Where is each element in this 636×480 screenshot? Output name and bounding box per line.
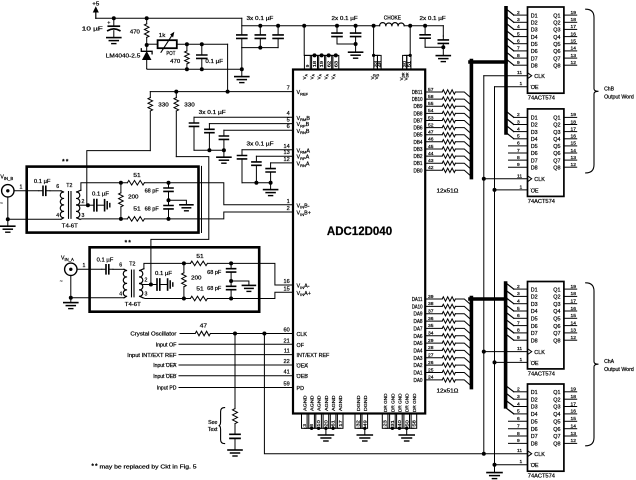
svg-text:17: 17 xyxy=(571,401,577,407)
pin Q8 of U3 xyxy=(553,162,576,171)
svg-text:8: 8 xyxy=(517,431,520,437)
svg-text:51: 51 xyxy=(196,254,203,260)
svg-text:470: 470 xyxy=(130,29,140,35)
input connector VIN_A (BNC) xyxy=(60,255,77,285)
svg-text:Q4: Q4 xyxy=(553,412,560,418)
svg-text:74ACT574: 74ACT574 xyxy=(528,199,555,205)
svg-text:51: 51 xyxy=(407,60,412,67)
wire LM4040 bottom rail xyxy=(147,68,242,70)
svg-text:Q1: Q1 xyxy=(553,287,560,293)
pin label AGND (3) xyxy=(302,395,307,411)
capacitor 10uF (polarized) xyxy=(82,18,120,37)
node OE/U5 xyxy=(493,463,528,467)
svg-text:3: 3 xyxy=(517,119,520,125)
ground VD caps xyxy=(349,52,363,58)
wire+resistor 51 ohm DA7 (pin 35) xyxy=(425,323,471,335)
svg-text:DA1: DA1 xyxy=(414,371,423,377)
ground BNC B xyxy=(1,226,15,232)
pin D7 of U5 xyxy=(509,431,538,440)
capacitor 68pF B lower xyxy=(145,200,173,219)
brace ChA output word xyxy=(586,283,634,446)
svg-text:8: 8 xyxy=(517,328,520,334)
node A top row/68pF xyxy=(229,261,233,265)
wire+resistor 51 ohm DB3 (pin 45) xyxy=(425,144,471,156)
svg-text:Input PD: Input PD xyxy=(157,386,177,392)
svg-text:2: 2 xyxy=(517,112,520,118)
pin label DR GND (23) xyxy=(383,393,388,412)
label 3x 0.1uF (ref B) xyxy=(199,110,226,116)
ground AGND xyxy=(318,435,333,441)
node CLK/U4 xyxy=(482,350,528,354)
brace ChB output word xyxy=(586,9,634,173)
svg-text:41: 41 xyxy=(283,370,289,376)
pin VA box 62 xyxy=(326,53,332,69)
svg-text:74ACT574: 74ACT574 xyxy=(528,371,555,377)
inductor CHOKE xyxy=(380,16,405,26)
svg-text:3x 0.1 µF: 3x 0.1 µF xyxy=(199,110,226,116)
svg-text:330: 330 xyxy=(158,102,169,108)
svg-text:0.1 µF: 0.1 µF xyxy=(34,179,51,185)
node bottom rail/0.1uF xyxy=(200,67,204,71)
pin label PD xyxy=(297,386,305,392)
pin label CLK xyxy=(297,332,308,338)
svg-text:DB8: DB8 xyxy=(414,111,423,117)
node OE/U4 xyxy=(493,360,528,364)
pin CLK of U3 xyxy=(517,173,545,183)
pin D4 of U5 xyxy=(506,408,538,419)
svg-text:Q7: Q7 xyxy=(553,331,560,337)
ground BNC A xyxy=(64,303,78,309)
wire stub beside box B right edge xyxy=(201,166,203,232)
svg-text:1: 1 xyxy=(20,185,23,191)
svg-text:VINB-: VINB- xyxy=(297,203,310,209)
wire+resistor 51 ohm DB11 (pin 57) xyxy=(425,87,471,99)
pin label DA8 xyxy=(414,319,423,325)
potentiometer 1k POT xyxy=(147,32,177,57)
svg-text:D7: D7 xyxy=(531,56,538,62)
capacitor VRM A 0.1uF xyxy=(238,150,247,183)
ground power-section main xyxy=(235,69,249,82)
pin label DR GND (58) xyxy=(412,393,417,412)
label+wire Input PD row pin 59 xyxy=(157,382,293,392)
svg-text:2: 2 xyxy=(517,10,520,16)
pin D3 of U5 xyxy=(506,400,538,411)
pin Q8 of U5 xyxy=(553,438,576,447)
svg-text:Q6: Q6 xyxy=(553,49,560,55)
svg-text:2: 2 xyxy=(145,277,148,283)
svg-text:14: 14 xyxy=(571,424,577,430)
pin D3 of U4 xyxy=(506,297,538,308)
svg-text:6: 6 xyxy=(287,124,290,130)
pin Q6 of U4 xyxy=(553,320,576,329)
svg-text:Q5: Q5 xyxy=(553,420,560,426)
capacitor VRP A 0.1uF xyxy=(252,156,261,183)
resistor see-text xyxy=(233,334,238,424)
wire A primary bottom to BNC ground xyxy=(69,276,124,303)
wire VDR caps bottom rail xyxy=(425,45,445,55)
svg-text:CLK: CLK xyxy=(534,74,545,80)
svg-text:14: 14 xyxy=(571,320,577,326)
ground DR GND xyxy=(399,435,414,441)
svg-text:D3: D3 xyxy=(531,405,538,411)
ground below 10uF xyxy=(107,38,121,44)
wire VD pins feed xyxy=(372,26,379,57)
label+wire Input INT/EXT REF row pin 11 xyxy=(127,349,293,359)
svg-text:Q3: Q3 xyxy=(553,28,560,34)
svg-text:9: 9 xyxy=(305,64,310,67)
svg-text:6: 6 xyxy=(517,39,520,45)
svg-text:16: 16 xyxy=(571,134,577,140)
pin label DR GND (31) xyxy=(390,393,395,412)
pin label VA (19) xyxy=(316,73,322,79)
ground ref A caps xyxy=(264,190,278,196)
svg-text:ChA: ChA xyxy=(604,359,615,365)
wire+resistor 51 ohm DA3 (pin 27) xyxy=(425,353,471,365)
wire VDR pins feed xyxy=(405,26,412,57)
svg-text:23: 23 xyxy=(383,420,388,427)
svg-text:PD: PD xyxy=(297,386,305,392)
input connector VIN_B (BNC) xyxy=(0,174,14,207)
svg-text:18: 18 xyxy=(571,17,577,23)
pin D6 of U4 xyxy=(506,319,538,330)
svg-text:3: 3 xyxy=(517,394,520,400)
svg-text:5: 5 xyxy=(517,31,520,37)
pin OE of U3 xyxy=(520,184,539,194)
svg-text:Output Word: Output Word xyxy=(604,94,634,100)
svg-text:15: 15 xyxy=(283,287,289,293)
node B tap junction xyxy=(86,203,90,207)
wire pot wiper row xyxy=(177,43,228,45)
svg-text:3: 3 xyxy=(145,292,148,298)
svg-text:15: 15 xyxy=(571,313,577,319)
pin Q7 of U4 xyxy=(553,328,576,337)
pin label AGND (17) xyxy=(338,395,343,411)
pin D3 of U2 xyxy=(506,23,538,33)
svg-text:Q8: Q8 xyxy=(553,442,560,448)
svg-text:VA: VA xyxy=(331,73,337,79)
wire+resistor 51 ohm DA11 (pin 39) xyxy=(425,294,471,306)
pin label VRM A xyxy=(297,148,311,154)
svg-text:D1: D1 xyxy=(531,287,538,293)
pin label AGND (20) xyxy=(324,395,329,411)
svg-text:49: 49 xyxy=(362,420,367,427)
resistor 51 A bottom xyxy=(190,286,231,301)
resistor 51 B top xyxy=(121,173,169,185)
svg-text:DB1: DB1 xyxy=(414,161,423,167)
svg-text:DA6: DA6 xyxy=(414,334,423,340)
pin Q1 of U5 xyxy=(553,387,576,396)
pin Q1 of U4 xyxy=(553,284,576,293)
svg-text:15: 15 xyxy=(571,39,577,45)
svg-text:+5: +5 xyxy=(92,1,99,7)
pin Q8 of U2 xyxy=(553,60,576,69)
wire VA supply rail xyxy=(242,18,443,25)
svg-text:DA0: DA0 xyxy=(414,378,423,384)
node A 68pF midpoint xyxy=(229,279,233,283)
pin label VA (62) xyxy=(324,73,330,79)
svg-text:8: 8 xyxy=(517,53,520,59)
svg-text:DR GND: DR GND xyxy=(397,393,402,412)
pin DR GND box 40 xyxy=(397,414,403,429)
svg-text:D4: D4 xyxy=(531,35,538,41)
svg-text:DB10: DB10 xyxy=(412,97,423,103)
node rail/C2 xyxy=(258,24,262,28)
ground A 68pF midpoint xyxy=(231,281,255,291)
wire CLK rail vertical xyxy=(483,76,485,454)
pin label VREF xyxy=(297,90,309,96)
node CLK/U3 xyxy=(482,177,528,181)
pin D6 of U3 xyxy=(509,148,538,157)
label Crystal Oscillator input xyxy=(130,332,176,338)
svg-text:DGND: DGND xyxy=(363,395,368,411)
pin Q3 of U4 xyxy=(553,299,576,308)
pin Q6 of U5 xyxy=(553,424,576,433)
svg-text:4: 4 xyxy=(517,299,520,305)
pin Q3 of U5 xyxy=(553,401,576,410)
wire VRM B row pin 4 xyxy=(194,111,293,117)
pin D5 of U2 xyxy=(506,37,538,48)
svg-text:D8: D8 xyxy=(531,442,538,448)
pin label DA0 xyxy=(414,378,423,384)
svg-text:~: ~ xyxy=(0,201,3,207)
svg-text:51: 51 xyxy=(133,173,140,179)
svg-text:31: 31 xyxy=(390,420,395,427)
pin Q2 of U3 xyxy=(553,119,576,128)
pin label OEB xyxy=(297,374,309,380)
svg-text:74ACT574: 74ACT574 xyxy=(528,474,555,480)
svg-text:4: 4 xyxy=(517,401,520,407)
svg-text:AGND: AGND xyxy=(310,395,315,411)
capacitor bypass C1 0.1uF xyxy=(237,26,247,48)
svg-text:13: 13 xyxy=(283,150,289,156)
svg-text:50: 50 xyxy=(404,420,409,427)
wire A bottom row xyxy=(143,297,190,301)
svg-text:OF: OF xyxy=(297,343,305,349)
svg-text:T4-6T: T4-6T xyxy=(125,302,142,308)
capacitor 0.1uF A tap bypass xyxy=(151,271,172,290)
svg-text:13: 13 xyxy=(571,53,577,59)
svg-text:LM4040-2.5: LM4040-2.5 xyxy=(106,54,141,60)
node A top row/200 xyxy=(182,261,186,265)
wire cap to transformer A primary xyxy=(113,263,124,270)
svg-text:16: 16 xyxy=(571,306,577,312)
svg-text:**: ** xyxy=(91,463,98,470)
label 12x51 ohm (DA) xyxy=(437,388,459,394)
pin D3 of U3 xyxy=(506,125,538,136)
diode LM4040-2.5 shunt reference xyxy=(106,45,152,69)
wire VRN B row pin 6 xyxy=(224,124,293,130)
svg-text:2: 2 xyxy=(287,206,290,212)
node +5/470 junction xyxy=(145,16,149,20)
pin label DA6 xyxy=(414,334,423,340)
pin DR GND box 23 xyxy=(382,414,388,429)
svg-text:Q1: Q1 xyxy=(553,13,560,19)
svg-text:Input OF: Input OF xyxy=(156,343,177,349)
node B top row/68pF xyxy=(167,181,171,185)
pin Q2 of U5 xyxy=(553,394,576,403)
pin VD box 48 xyxy=(377,55,382,69)
pin D1 of U3 xyxy=(506,111,538,122)
svg-text:6: 6 xyxy=(56,184,59,190)
svg-text:D3: D3 xyxy=(531,302,538,308)
capacitor VRN A 0.1uF xyxy=(266,163,275,183)
pin Q7 of U2 xyxy=(553,53,576,62)
pin label DA4 xyxy=(414,348,423,354)
svg-text:VRNA: VRNA xyxy=(297,161,310,167)
label 3x 0.1uF xyxy=(247,16,274,22)
svg-text:62: 62 xyxy=(326,60,331,67)
pin D7 of U4 xyxy=(506,327,538,338)
wire+resistor 51 ohm DB2 (pin 44) xyxy=(425,151,471,163)
pin D7 of U3 xyxy=(509,155,538,164)
svg-text:9: 9 xyxy=(517,438,520,444)
svg-text:AGND: AGND xyxy=(324,395,329,411)
svg-text:INT/EXT REF: INT/EXT REF xyxy=(297,353,331,359)
svg-text:VA: VA xyxy=(316,73,322,79)
svg-text:48: 48 xyxy=(377,60,382,67)
svg-text:DB11: DB11 xyxy=(412,90,423,96)
pin Q1 of U3 xyxy=(553,112,576,121)
wire cap to transformer B primary xyxy=(50,184,61,191)
wire OE rail vertical xyxy=(494,87,496,473)
svg-text:VIN_A: VIN_A xyxy=(61,255,74,262)
pin D5 of U5 xyxy=(509,416,538,425)
ground B 68pF midpoint xyxy=(169,200,193,211)
pin D2 of U5 xyxy=(506,393,538,404)
svg-text:DR GND: DR GND xyxy=(390,393,395,412)
svg-text:OE: OE xyxy=(531,188,539,194)
capacitor VRM B 0.1uF xyxy=(190,117,199,150)
svg-text:61: 61 xyxy=(331,420,336,427)
pin label DA11 xyxy=(412,297,423,303)
wire+resistor 51 ohm DA10 (pin 38) xyxy=(425,301,471,313)
wire B bottom row xyxy=(80,217,127,221)
capacitor 0.1uF B tap bypass xyxy=(88,192,109,211)
svg-text:17: 17 xyxy=(571,126,577,132)
svg-text:13: 13 xyxy=(571,431,577,437)
svg-text:Q3: Q3 xyxy=(553,302,560,308)
node VREF/330 B xyxy=(174,90,178,94)
capacitor 68pF A upper xyxy=(207,263,235,281)
label 2x 0.1uF (VDR group) xyxy=(420,16,446,22)
capacitor VRP B 0.1uF xyxy=(205,124,214,151)
svg-text:5: 5 xyxy=(517,409,520,415)
label 3x 0.1uF (ref A) xyxy=(247,142,274,148)
IC U4 74ACT574 body xyxy=(528,282,564,378)
pin VA box 63 xyxy=(333,53,339,69)
svg-text:12: 12 xyxy=(571,438,577,444)
svg-text:DA9: DA9 xyxy=(414,312,423,318)
ground (sideways) A tap xyxy=(168,279,173,290)
pin Q8 of U4 xyxy=(553,335,576,344)
pin D1 of U2 xyxy=(506,9,538,19)
svg-text:DA7: DA7 xyxy=(414,326,423,332)
svg-text:DB3: DB3 xyxy=(414,147,423,153)
svg-text:68 pF: 68 pF xyxy=(145,207,159,213)
svg-text:51: 51 xyxy=(133,207,140,213)
wire U2 OE row xyxy=(495,86,528,88)
svg-text:74ACT574: 74ACT574 xyxy=(528,96,555,102)
bus ChA latch fan (thick vertical) xyxy=(504,283,508,407)
node CLK/U5 (bottom rail) xyxy=(482,452,486,456)
pin label DB3 xyxy=(414,147,423,153)
svg-text:40: 40 xyxy=(397,420,402,427)
svg-text:68 pF: 68 pF xyxy=(207,286,221,292)
wire+resistor 51 ohm DA8 (pin 36) xyxy=(425,316,471,328)
pin label OF xyxy=(297,343,305,349)
pin VDR box 51 xyxy=(407,55,412,69)
svg-text:D4: D4 xyxy=(531,137,538,143)
wire+resistor 51 ohm DB9 (pin 55) xyxy=(425,101,471,113)
svg-text:D4: D4 xyxy=(531,412,538,418)
svg-text:19: 19 xyxy=(571,284,577,290)
ground DGND xyxy=(357,435,372,441)
svg-text:8: 8 xyxy=(309,424,314,427)
pin AGND box 10 xyxy=(316,414,322,429)
node wiper/0.1uF junction xyxy=(200,42,204,46)
svg-text:9: 9 xyxy=(517,162,520,168)
svg-text:0.1 µF: 0.1 µF xyxy=(92,192,109,198)
pin label DB6 xyxy=(414,126,423,132)
wire B secondary top row xyxy=(81,183,121,191)
pin D5 of U4 xyxy=(506,312,538,323)
wire+resistor 51 ohm DA1 (pin 25) xyxy=(425,367,471,379)
svg-text:Q2: Q2 xyxy=(553,295,560,301)
wire+resistor 51 ohm DA0 (pin 24) xyxy=(425,375,471,387)
svg-text:DB4: DB4 xyxy=(414,140,423,146)
svg-text:12: 12 xyxy=(571,60,577,66)
capacitor 68pF B upper xyxy=(145,183,173,201)
wire VRM A row pin 14 xyxy=(242,144,293,150)
svg-text:CLK: CLK xyxy=(297,332,308,338)
resistor 51 A top xyxy=(184,254,231,266)
svg-text:T2: T2 xyxy=(66,183,72,189)
svg-text:330: 330 xyxy=(184,102,195,108)
node rail/VD pins feed xyxy=(372,24,376,28)
resistor 330 (channel B bias) xyxy=(148,92,169,151)
pin D8 of U4 xyxy=(506,334,538,345)
bus DA to ChA latches connector xyxy=(470,297,506,301)
pin Q3 of U3 xyxy=(553,126,576,135)
svg-text:4: 4 xyxy=(517,24,520,30)
svg-text:Q8: Q8 xyxy=(553,63,560,69)
svg-text:OE: OE xyxy=(531,463,539,469)
label+wire Input OEA row pin 22 xyxy=(153,359,293,369)
node bottom rail/bypass ground junction xyxy=(240,67,244,71)
pin label DGND (49) xyxy=(363,395,368,411)
svg-text:Q7: Q7 xyxy=(553,158,560,164)
svg-text:Q7: Q7 xyxy=(553,434,560,440)
resistor 330 (channel A bias) xyxy=(174,92,195,157)
svg-text:D5: D5 xyxy=(531,317,538,323)
pin Q7 of U5 xyxy=(553,431,576,440)
pin D2 of U2 xyxy=(506,16,538,27)
svg-text:DR GND: DR GND xyxy=(405,393,410,412)
node CLK/see-text divider xyxy=(233,332,237,336)
svg-text:2: 2 xyxy=(517,284,520,290)
wire bypass caps bottom rail xyxy=(242,46,278,70)
svg-text:VA: VA xyxy=(302,73,308,79)
pin DGND box 49 xyxy=(362,414,368,429)
pin label VA (63) xyxy=(331,73,337,79)
pin D8 of U2 xyxy=(506,59,538,70)
svg-text:63: 63 xyxy=(333,60,338,67)
wire DGND common xyxy=(358,427,367,435)
svg-text:D6: D6 xyxy=(531,324,538,330)
pin D7 of U2 xyxy=(506,52,538,63)
wire+resistor 51 ohm DB1 (pin 43) xyxy=(425,158,471,170)
svg-text:22: 22 xyxy=(283,359,289,365)
